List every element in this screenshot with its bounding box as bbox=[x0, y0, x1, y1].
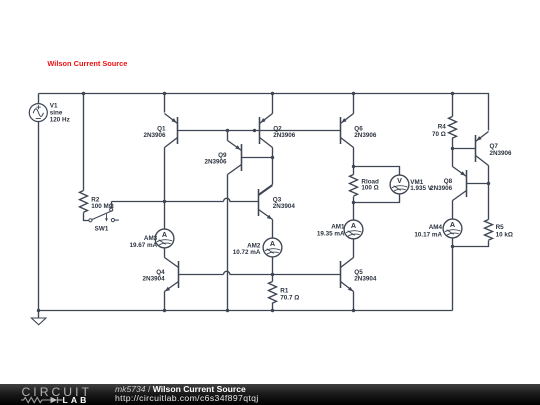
wire bottom rail bbox=[39, 310, 453, 312]
wire Q7 collector bbox=[488, 166, 490, 184]
wire AM4 to ground rail bbox=[452, 247, 454, 311]
wire R4 top bbox=[452, 94, 454, 117]
svg-text:2N3904: 2N3904 bbox=[143, 276, 166, 283]
resistor Rload bbox=[350, 175, 358, 197]
wire AM1 top bbox=[353, 203, 355, 221]
wire Q8 collector bbox=[452, 201, 454, 219]
ammeter AM1 bbox=[344, 220, 363, 239]
svg-text:70 Ω: 70 Ω bbox=[432, 131, 446, 138]
svg-text:70.7 Ω: 70.7 Ω bbox=[280, 294, 299, 301]
svg-text:10.17 mA: 10.17 mA bbox=[414, 232, 442, 239]
ammeter AM4 bbox=[443, 219, 462, 238]
ammeter AM2 bbox=[263, 238, 282, 257]
transistor Q6 bbox=[340, 117, 342, 144]
wire Q7 base bbox=[453, 148, 476, 150]
wire R2 top bbox=[83, 94, 85, 191]
wire hop2 over Q9 collector bbox=[224, 271, 230, 274]
wire Q4 emitter bbox=[164, 292, 166, 311]
wire R4 bottom bbox=[452, 138, 454, 149]
svg-text:A: A bbox=[162, 230, 167, 239]
node top rail Q6 emitter bbox=[352, 92, 355, 95]
node Q5 emitter ground bbox=[352, 309, 355, 312]
wire R2 to SW1 bbox=[84, 213, 89, 221]
wire SW1 to bus bbox=[111, 202, 113, 209]
svg-text:120 Hz: 120 Hz bbox=[50, 116, 70, 123]
svg-text:A: A bbox=[351, 221, 356, 230]
node Q7 collector junction bbox=[487, 182, 490, 185]
node Q9 emitter tap bbox=[226, 129, 229, 132]
svg-text:2N3906: 2N3906 bbox=[143, 132, 166, 139]
wire Q5 emitter bbox=[353, 292, 355, 311]
wire R5 top bbox=[488, 184, 490, 220]
voltage source V1 bbox=[29, 104, 47, 122]
svg-text:19.67 mA: 19.67 mA bbox=[130, 242, 158, 249]
svg-text:2N3906: 2N3906 bbox=[204, 159, 227, 166]
transistor Q5 bbox=[340, 261, 342, 288]
node Q4 emitter ground bbox=[163, 309, 166, 312]
wire V1 bottom bbox=[38, 122, 40, 311]
resistor R2 bbox=[80, 191, 88, 213]
resistor R5 bbox=[485, 220, 493, 241]
wire Q6 collector bbox=[353, 148, 355, 167]
ground bbox=[38, 311, 40, 318]
wire top rail bbox=[39, 94, 489, 131]
svg-text:19.35 mA: 19.35 mA bbox=[317, 231, 345, 238]
wire AM2 bottom bbox=[272, 258, 274, 275]
wire Q3 emitter to AM2 bbox=[272, 220, 274, 239]
transistor Q7 bbox=[475, 135, 477, 162]
svg-text:R5: R5 bbox=[496, 224, 505, 231]
wire base bus Q1-Q2-Q6 bbox=[178, 130, 341, 132]
svg-text:10.72 mA: 10.72 mA bbox=[233, 249, 261, 256]
wire V1 top bbox=[38, 94, 40, 104]
svg-text:2N3906: 2N3906 bbox=[354, 132, 377, 139]
transistor Q1 bbox=[177, 117, 179, 144]
svg-text:AM1: AM1 bbox=[331, 224, 345, 231]
wire R1 bottom bbox=[272, 303, 274, 311]
wire Q9 base bbox=[242, 157, 273, 159]
wire base bus Q4Q3 left bbox=[112, 201, 224, 203]
wire Rload top stub bbox=[353, 167, 355, 175]
node AM3 tap bbox=[163, 200, 166, 203]
node R1 ground bbox=[271, 309, 274, 312]
svg-text:2N3904: 2N3904 bbox=[273, 203, 296, 210]
transistor Q9 bbox=[241, 144, 243, 171]
wire R1 top stub bbox=[272, 275, 274, 282]
transistor Q8 bbox=[466, 170, 468, 197]
wire Q8 base bbox=[467, 183, 489, 185]
node Q9 base junction bbox=[271, 156, 274, 159]
wire Q2-Q3 link bbox=[259, 185, 273, 195]
wire base bus Q4 to hop bbox=[179, 274, 224, 276]
svg-text:A: A bbox=[270, 239, 275, 248]
svg-text:10 kΩ: 10 kΩ bbox=[496, 231, 513, 238]
svg-text:100 Ω: 100 Ω bbox=[361, 185, 378, 192]
wire Q2 emitter stub bbox=[272, 94, 274, 114]
wire bus to Q5 base bbox=[230, 274, 341, 276]
svg-text:2N3906: 2N3906 bbox=[430, 185, 453, 192]
wire bus to Q3 base bbox=[230, 201, 259, 203]
node V1-ground junction bbox=[37, 309, 40, 312]
wire AM3 to Q4 bbox=[164, 248, 166, 258]
wire Q1 collector bbox=[164, 148, 166, 202]
wire AM1 to Q5 bbox=[353, 239, 355, 258]
svg-text:AM3: AM3 bbox=[144, 235, 158, 242]
node top rail Q2 emitter bbox=[271, 92, 274, 95]
resistor R4 bbox=[449, 117, 457, 139]
wire Q6 emitter stub bbox=[353, 94, 355, 114]
svg-text:SW1: SW1 bbox=[95, 226, 109, 233]
resistor R1 bbox=[269, 282, 277, 304]
svg-text:Wilson Current Source: Wilson Current Source bbox=[47, 59, 127, 68]
ammeter AM3 bbox=[155, 229, 174, 248]
switch SW1 bbox=[89, 208, 119, 222]
voltmeter VM1 bbox=[390, 175, 409, 194]
wire Q9 collector bbox=[227, 175, 229, 311]
svg-text:A: A bbox=[450, 220, 455, 229]
svg-text:2N3904: 2N3904 bbox=[354, 276, 377, 283]
wire Rload bottom bbox=[353, 197, 355, 203]
svg-text:V: V bbox=[397, 176, 402, 185]
svg-text:AM4: AM4 bbox=[429, 224, 443, 231]
node top rail R2 tap bbox=[82, 92, 85, 95]
wire VM1 top bbox=[354, 167, 400, 176]
transistor Q2 bbox=[259, 117, 261, 144]
node AM4-R5 junction bbox=[451, 245, 454, 248]
node top rail R4 tap bbox=[451, 92, 454, 95]
wire Q1 emitter stub bbox=[164, 94, 166, 113]
wire Q2 collector bbox=[272, 148, 274, 185]
node Rload top bbox=[352, 165, 355, 168]
wire Q9 emitter stub bbox=[227, 131, 229, 141]
node R1 top bbox=[271, 273, 274, 276]
wire to AM3 bbox=[164, 202, 166, 229]
transistor Q4 bbox=[178, 261, 180, 288]
wire VM1 bottom bbox=[354, 194, 400, 203]
svg-text:2N3906: 2N3906 bbox=[490, 150, 513, 157]
svg-text:R4: R4 bbox=[438, 123, 447, 130]
wire Q8 emitter stub bbox=[452, 149, 454, 167]
wire R5 bottom bbox=[453, 241, 489, 247]
wire hop over Q9 collector bbox=[224, 198, 230, 201]
node Q2 base bbox=[253, 129, 256, 132]
svg-text:2N3906: 2N3906 bbox=[273, 132, 296, 139]
transistor Q3 bbox=[258, 189, 260, 216]
node Rload bottom bbox=[352, 201, 355, 204]
node Q9 collector ground bbox=[226, 309, 229, 312]
node R4-Q7 base junction bbox=[451, 147, 454, 150]
node top rail Q1 emitter bbox=[163, 92, 166, 95]
wire AM4 bottom bbox=[452, 238, 454, 247]
